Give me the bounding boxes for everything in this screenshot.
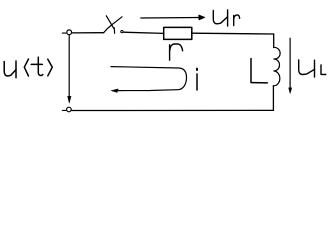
label UL: [299, 60, 326, 77]
wire: bottom horizontal: [72, 109, 274, 111]
label Ur: [213, 10, 239, 26]
wire: stub left of top terminal: [62, 32, 66, 34]
resistor r body: [164, 27, 192, 39]
wire: stub left of bottom terminal: [62, 109, 66, 111]
wire: right vertical down to inductor: [273, 34, 275, 48]
node: bottom-left source terminal: [67, 107, 72, 112]
label r (resistor value): [170, 44, 183, 60]
arrow u_L (voltage across L, pointing down): [289, 38, 291, 88]
wire: switch to resistor: [124, 32, 164, 33]
switch S blade: [104, 17, 122, 33]
arrow u_r (voltage across r, pointing right): [141, 17, 200, 20]
current loop arrow i: [111, 67, 187, 91]
label L (inductor): [251, 59, 267, 83]
source voltage arrow (down): [68, 36, 70, 98]
switch S hinge circle: [121, 30, 123, 32]
switch S vertical tick: [113, 28, 115, 34]
wire: resistor to top-right corner: [192, 32, 274, 35]
node: top-left source terminal: [67, 30, 72, 35]
wire: inductor bottom to bottom-right corner: [272, 86, 274, 111]
label i: [196, 69, 198, 90]
switch S cross stroke: [106, 16, 114, 29]
wire: top-left horizontal from terminal to switch: [72, 32, 104, 34]
inductor L coil: [273, 47, 280, 85]
label u(t): [4, 57, 52, 78]
